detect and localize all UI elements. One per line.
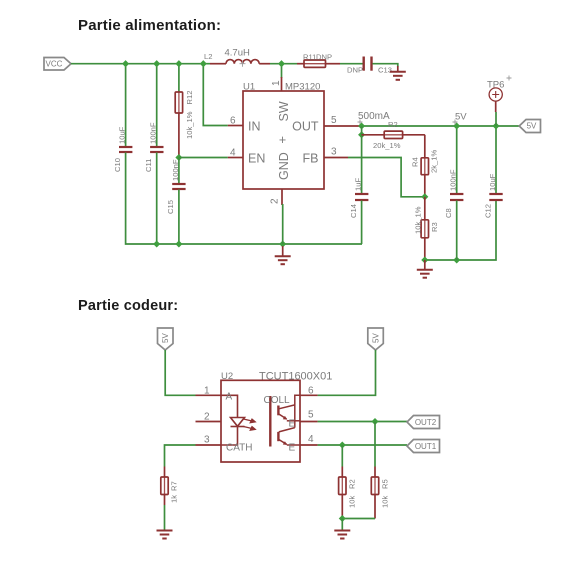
flag 5V supply left (158, 328, 174, 350)
wire C14 bottom to rail (361, 201, 363, 245)
junction VCC/R12 (175, 60, 182, 67)
svg-text:COLL: COLL (264, 395, 291, 406)
pin stub EN pin4 (228, 157, 243, 159)
wire R5 vertical (374, 422, 376, 467)
ground under R2b/R5 (334, 531, 350, 539)
svg-text:C13: C13 (378, 66, 392, 75)
junction VCC/IN (200, 60, 207, 67)
svg-text:5: 5 (331, 115, 337, 126)
barrier line (269, 396, 271, 447)
junction SW node (278, 60, 285, 67)
junction C8/rail (453, 256, 460, 263)
svg-text:SW: SW (277, 101, 291, 121)
pin stub 2 NC (196, 421, 222, 423)
junction C8/5V (453, 122, 460, 129)
flag 5V supply right (368, 328, 384, 350)
svg-text:4: 4 (308, 434, 314, 445)
svg-text:Partie alimentation:: Partie alimentation: (78, 17, 221, 34)
op-amp U1 MP3120 box (243, 82, 324, 190)
svg-text:A: A (226, 391, 233, 402)
pin stub 5 emitter1 (300, 421, 318, 423)
wire R2b vertical (341, 445, 343, 467)
resistor R4 (411, 135, 439, 197)
flag OUT2 (407, 416, 440, 429)
svg-text:100nF: 100nF (171, 159, 180, 181)
pin stub OUT pin5 (324, 125, 362, 127)
svg-text:3: 3 (331, 147, 337, 158)
resistor R2 (362, 120, 425, 150)
ground under R3 (417, 260, 433, 278)
svg-text:C15: C15 (166, 200, 175, 214)
wire C11 bottom (156, 153, 158, 245)
junction FB/R4/R3 (421, 193, 428, 200)
phototransistor upper (278, 395, 300, 427)
svg-text:1: 1 (271, 80, 282, 86)
resistor R2 bottom (339, 467, 357, 519)
junction OUT2/R5 (371, 418, 378, 425)
resistor R11 (297, 53, 340, 68)
svg-text:OUT2: OUT2 (415, 418, 437, 427)
svg-text:C11: C11 (144, 159, 153, 172)
svg-text:R7: R7 (170, 481, 179, 491)
svg-text:FB: FB (303, 152, 319, 166)
LED inside opto (221, 395, 245, 445)
wire ground rail (157, 243, 362, 245)
wire FB net (348, 158, 425, 197)
svg-text:TCUT1600X01: TCUT1600X01 (259, 371, 332, 383)
wire 5V net horizontal (362, 125, 520, 127)
svg-text:+: + (279, 133, 286, 147)
svg-text:5V: 5V (527, 122, 537, 131)
junction rail C15 (175, 240, 182, 247)
capacitor C13 (347, 57, 392, 75)
svg-text:U2: U2 (221, 371, 233, 382)
svg-text:10uF: 10uF (118, 126, 127, 144)
svg-text:IN: IN (248, 120, 261, 134)
pin stub IN pin6 (228, 125, 243, 127)
svg-text:R2: R2 (348, 479, 357, 489)
svg-text:4: 4 (230, 148, 236, 159)
svg-text:R4: R4 (411, 157, 420, 167)
junction rail C11 (153, 240, 160, 247)
wire R5 bottom to junction (342, 518, 375, 520)
svg-text:100nF: 100nF (149, 122, 158, 144)
wire C10 bottom (126, 153, 157, 245)
junction OUT1/R2b (339, 441, 346, 448)
wire SW node (270, 64, 297, 78)
pin stub 1 anode (196, 394, 222, 396)
svg-text:1uF: 1uF (354, 178, 363, 191)
svg-text:10k_1%: 10k_1% (414, 206, 423, 234)
wire C13 to ground (373, 64, 398, 67)
flag 5V right (519, 120, 540, 133)
svg-text:R5: R5 (381, 479, 390, 489)
ground under pin2 (275, 246, 291, 264)
svg-text:EN: EN (248, 152, 265, 166)
wire cathode to R7 (165, 445, 196, 467)
pin stub 4 emitter2 (300, 444, 318, 446)
svg-text:10k: 10k (348, 496, 357, 508)
svg-text:DNP: DNP (316, 53, 332, 62)
svg-text:C12: C12 (483, 204, 492, 218)
resistor R12 (175, 91, 194, 158)
junction rail GND pin2 (279, 240, 286, 247)
junction EN/R12/C15 (175, 154, 182, 161)
flag VCC (44, 58, 71, 71)
svg-text:5: 5 (308, 410, 314, 421)
svg-text:2k_1%: 2k_1% (430, 150, 439, 173)
wire OUT1 net (318, 444, 407, 446)
net label 5V (453, 112, 468, 125)
junction R3/rail (421, 256, 428, 263)
svg-text:E: E (289, 443, 296, 454)
svg-text:VCC: VCC (46, 59, 63, 68)
svg-text:OUT: OUT (292, 120, 319, 134)
svg-text:C8: C8 (444, 208, 453, 218)
wire junctionA to junctionB to C14 (361, 126, 363, 194)
svg-text:R2: R2 (388, 120, 398, 129)
svg-text:L2: L2 (204, 52, 212, 61)
resistor R5 bottom (371, 467, 389, 519)
svg-text:10k: 10k (381, 496, 390, 508)
svg-text:OUT1: OUT1 (415, 442, 437, 451)
net label 500mA (358, 111, 391, 125)
resistor R7 (161, 467, 179, 506)
svg-text:100nF: 100nF (449, 169, 458, 191)
svg-text:5V: 5V (161, 333, 170, 343)
wire VCC net (71, 64, 228, 147)
svg-text:MP3120: MP3120 (285, 82, 320, 93)
resistor R3 (414, 197, 440, 260)
wire OUT2 net (318, 421, 407, 423)
svg-text:R12: R12 (185, 91, 194, 105)
svg-text:Partie codeur:: Partie codeur: (78, 298, 178, 314)
capacitor C15 (166, 158, 185, 215)
svg-text:4.7uH: 4.7uH (225, 48, 250, 59)
wire lower 5V rail (425, 201, 496, 261)
svg-text:500mA: 500mA (358, 111, 390, 122)
arrow emitter1 (283, 416, 288, 420)
test point TP6 (487, 76, 512, 127)
junction VCC/C11 (153, 60, 160, 67)
junction R2b/R5/gnd (339, 515, 346, 522)
wire EN net (179, 157, 228, 159)
svg-text:10k_1%: 10k_1% (185, 111, 194, 139)
capacitor C14 (349, 178, 368, 218)
svg-text:2: 2 (270, 198, 281, 204)
wire 5V to pin6 (318, 350, 376, 395)
svg-text:DNP: DNP (347, 66, 363, 75)
junction R2 row (358, 131, 365, 138)
inductor L2 4.7uH (210, 60, 270, 64)
svg-text:10uF: 10uF (488, 173, 497, 191)
wire C15 bottom (178, 190, 180, 245)
flag OUT1 (407, 440, 440, 453)
svg-text:CATH: CATH (226, 443, 252, 454)
svg-text:C14: C14 (349, 204, 358, 218)
pin stub GND pin2 (281, 189, 283, 205)
svg-text:U1: U1 (243, 82, 255, 93)
svg-text:R11: R11 (303, 53, 316, 62)
pin stub 6 collector (300, 394, 318, 396)
svg-text:R3: R3 (430, 222, 439, 232)
svg-text:20k_1%: 20k_1% (373, 141, 401, 150)
capacitor C12 (483, 126, 502, 218)
wire junction to ground (341, 519, 343, 531)
ground under C13 (390, 66, 406, 80)
svg-text:C10: C10 (113, 158, 122, 172)
ground under R7 (157, 531, 173, 539)
phototransistor lower (278, 428, 300, 445)
svg-text:GND: GND (277, 152, 291, 180)
pin stub FB pin3 (324, 157, 348, 159)
capacitor C11 (144, 122, 164, 172)
svg-text:6: 6 (230, 116, 236, 127)
light arrows (244, 419, 256, 430)
arrow emitter2 (283, 441, 288, 445)
capacitor C8 (444, 126, 463, 260)
pin stub SW pin1 (281, 77, 283, 91)
svg-text:2: 2 (204, 411, 210, 422)
wire 5V to pin1 (165, 350, 195, 395)
svg-text:3: 3 (204, 435, 210, 446)
junction OUT/5V (358, 122, 365, 129)
svg-text:6: 6 (308, 385, 314, 396)
opto U2 TCUT1600X01 box (221, 371, 332, 463)
svg-text:1k: 1k (170, 495, 179, 503)
wire R7 to ground (164, 505, 166, 530)
svg-text:5V: 5V (455, 112, 467, 123)
svg-text:1: 1 (204, 385, 210, 396)
svg-text:5V: 5V (371, 333, 380, 343)
junction C12/TP6/5V (492, 122, 499, 129)
capacitor C10 (113, 126, 132, 172)
wire pin2 to rail (282, 204, 284, 244)
junction VCC/C10 (122, 60, 129, 67)
svg-text:TP6: TP6 (487, 80, 504, 91)
pin stub 3 cathode (196, 444, 222, 446)
wire R11 to C13 (340, 63, 363, 65)
